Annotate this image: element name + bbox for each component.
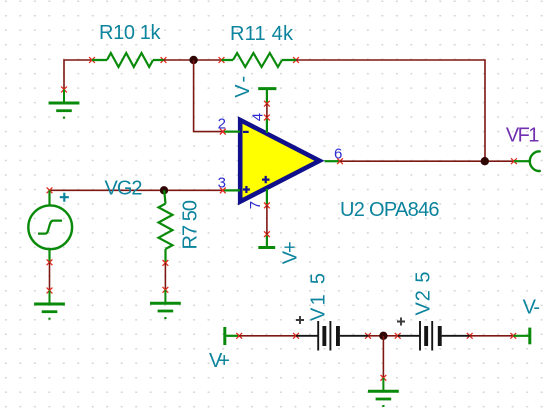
node output junction	[481, 157, 489, 165]
ground (below R7)	[150, 287, 181, 318]
op-amp pin 6 lead	[325, 158, 343, 164]
VG2 plus sign	[60, 193, 69, 202]
svg-text:V1 5: V1 5	[308, 273, 330, 321]
V- terminal (battery rail right)	[510, 328, 529, 345]
wire V2 to V- terminal	[470, 335, 514, 337]
wire battery junction to ground	[382, 336, 384, 378]
svg-text:3: 3	[218, 175, 226, 192]
op-amp U2 triangle	[240, 120, 319, 202]
op-amp plus sign (pin3)	[243, 186, 250, 193]
svg-text:VG2: VG2	[105, 178, 143, 200]
resistor R10	[89, 53, 166, 67]
svg-text:R11 4k: R11 4k	[230, 23, 294, 45]
svg-text:U2 OPA846: U2 OPA846	[340, 199, 440, 221]
node battery midpoint junction	[379, 332, 387, 340]
svg-text:R7 50: R7 50	[180, 200, 202, 250]
wire V1 to V2 through junction	[368, 335, 398, 337]
svg-text:VF1: VF1	[506, 125, 540, 147]
wire pin 7 to terminal	[266, 205, 268, 234]
op-amp pin 7 lead	[264, 189, 270, 209]
svg-text:V+: V+	[209, 350, 230, 372]
ground (below VG2)	[34, 288, 65, 319]
op-amp minus sign	[243, 131, 249, 133]
svg-text:V2 5: V2 5	[413, 272, 435, 316]
node junction at R7 top	[160, 186, 168, 194]
V+ supply terminal (pin 7)	[258, 231, 275, 247]
op-amp pin 4 lead	[264, 115, 270, 133]
wire V+ terminal to V1	[239, 335, 296, 337]
resistor R7	[159, 190, 173, 265]
wire R10 to R11	[164, 59, 222, 61]
svg-text:V-: V-	[232, 76, 254, 98]
wire terminal to pin 4	[266, 104, 268, 118]
svg-text:V+: V+	[280, 241, 302, 264]
ground (top left)	[49, 87, 80, 118]
op-amp pin 2 lead	[220, 129, 240, 135]
wire feedback R11 to output node	[296, 60, 485, 161]
op-amp pin 3 lead	[220, 188, 240, 194]
V+ terminal (battery rail left)	[225, 327, 242, 345]
V- supply terminal (pin 4)	[258, 89, 276, 107]
wire VG2 to op-amp pin 3	[50, 189, 223, 191]
wire op-amp output to VF1	[340, 160, 514, 162]
battery V1	[293, 321, 371, 351]
ground (battery midpoint)	[368, 375, 399, 406]
wire junction down to op-amp pin 2	[194, 60, 223, 132]
node junction (feedback tap)	[189, 56, 197, 64]
V1 plus sign	[296, 316, 304, 324]
battery V2	[395, 321, 473, 351]
wire VG2 to ground	[49, 262, 51, 290]
op-amp plus sign (center)	[262, 176, 270, 183]
wire from left ground up to R10	[64, 60, 92, 90]
svg-text:R10 1k: R10 1k	[99, 22, 162, 44]
voltage source VG2	[28, 187, 72, 265]
probe VF1	[511, 151, 540, 171]
svg-text:4: 4	[250, 113, 267, 121]
svg-text:6: 6	[334, 146, 342, 163]
svg-text:V-: V-	[523, 297, 541, 319]
resistor R11	[219, 53, 299, 67]
svg-text:2: 2	[218, 116, 226, 133]
V2 plus sign	[397, 318, 405, 326]
svg-text:7: 7	[247, 201, 264, 209]
wire R7 to ground	[164, 263, 166, 290]
